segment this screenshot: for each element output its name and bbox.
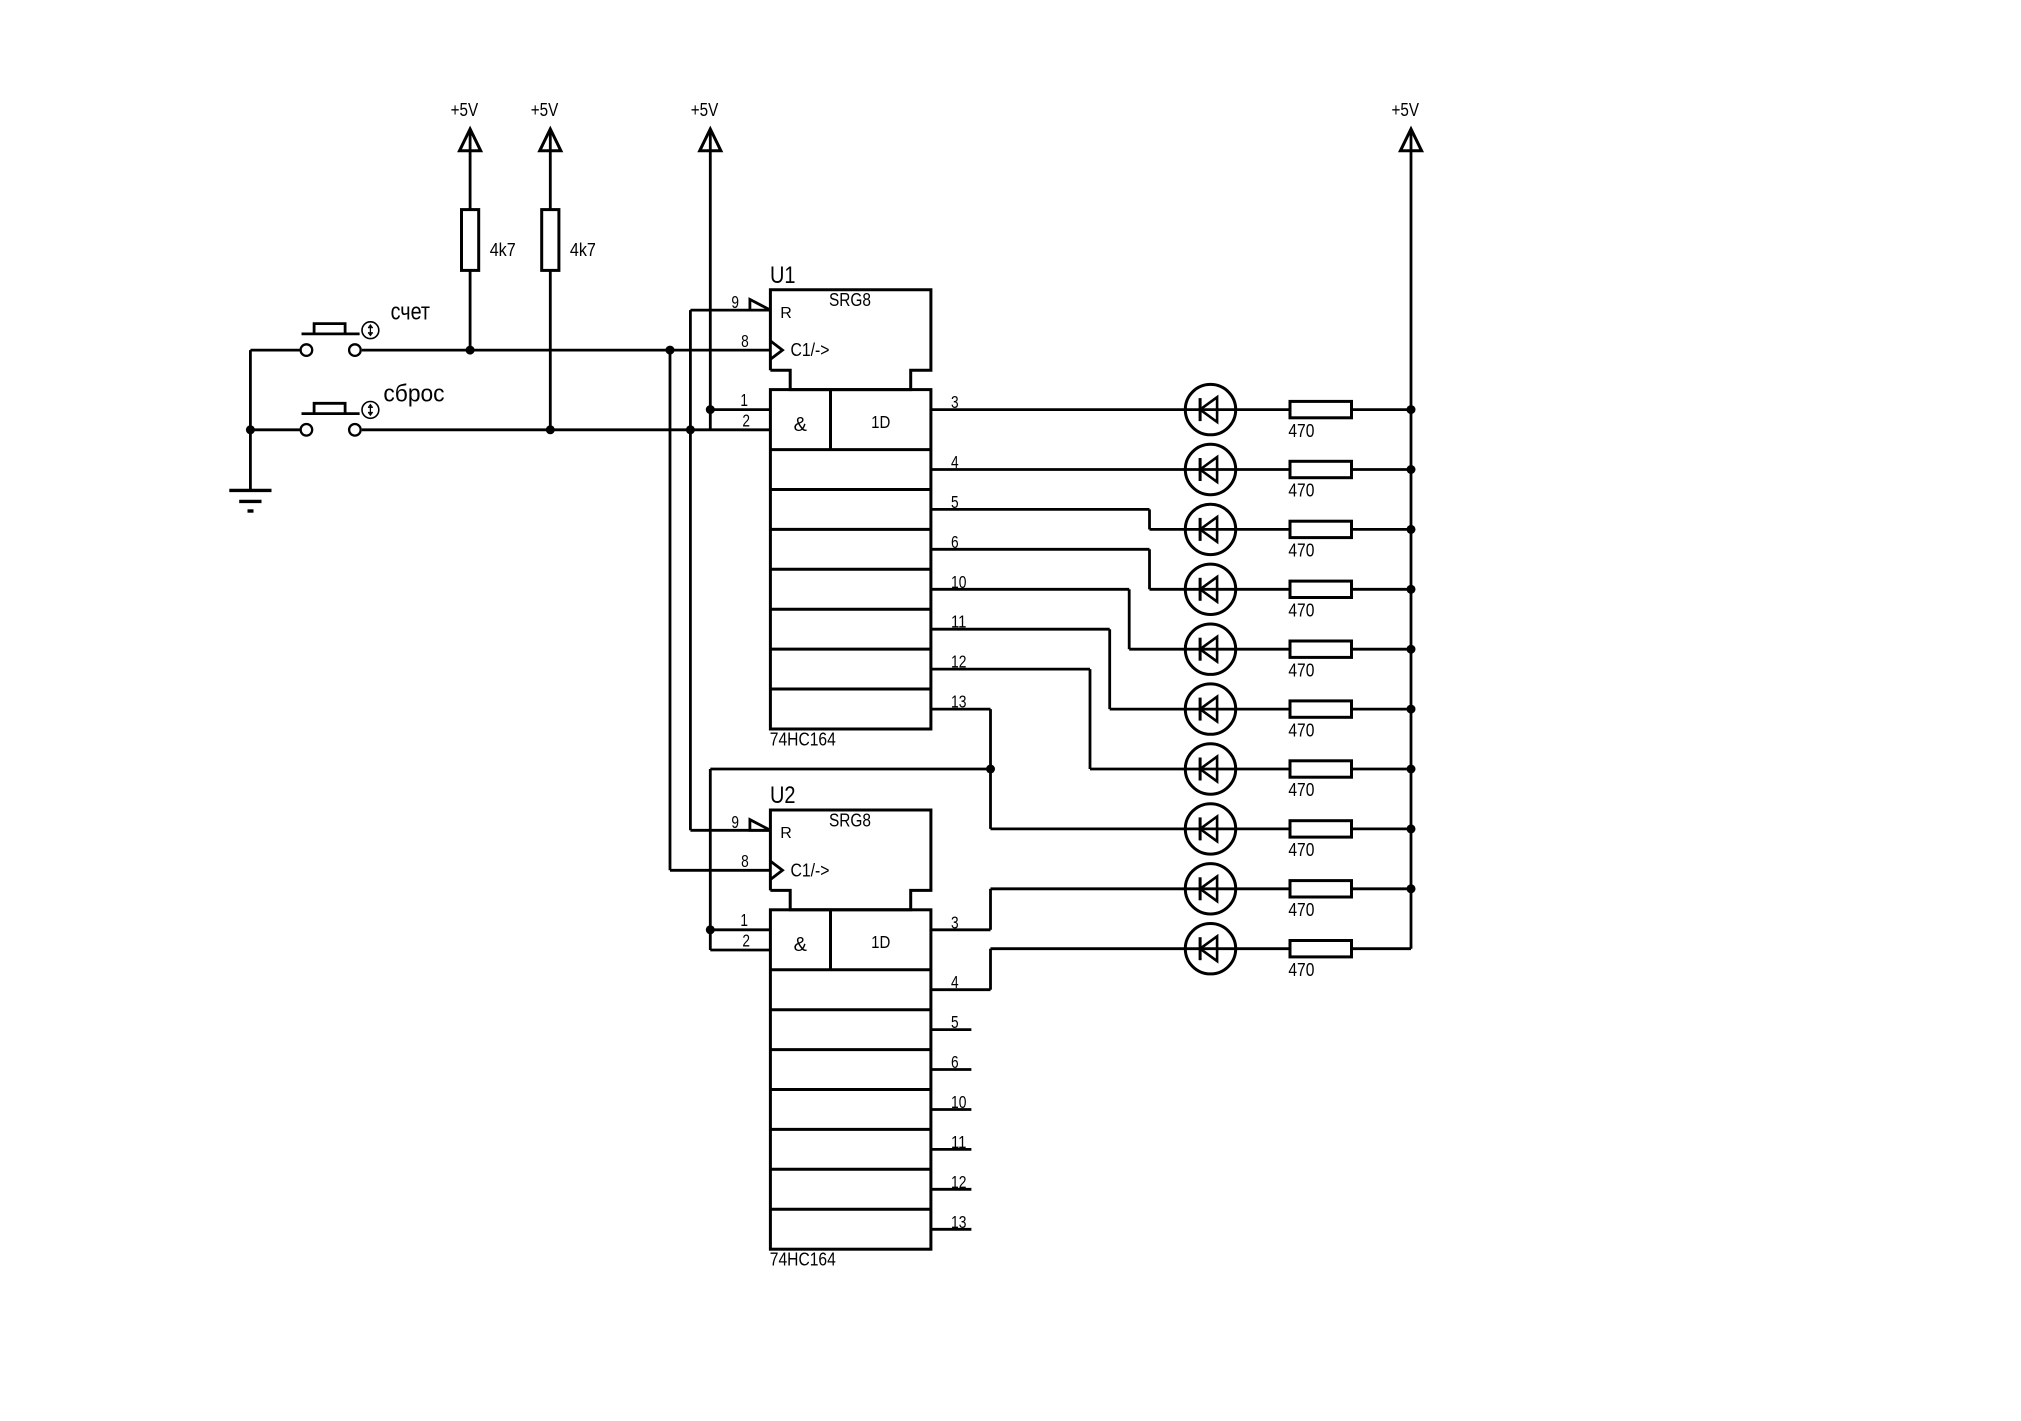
svg-text:9: 9 (731, 812, 739, 832)
svg-text:4k7: 4k7 (570, 240, 596, 260)
svg-text:SRG8: SRG8 (829, 810, 871, 830)
svg-text:8: 8 (741, 331, 749, 351)
wire LED row 5 horizontal to +5V rail (1129, 648, 1411, 651)
wire left rail from schet line down to ground (249, 350, 252, 490)
junction clock branch on schet line (666, 346, 675, 355)
U1 right pin numbers (951, 392, 967, 711)
svg-text:C1/->: C1/-> (791, 860, 830, 880)
wire LED row 4 horizontal to +5V rail (1150, 588, 1412, 591)
resistor R9 470 (horizontal) (1288, 761, 1351, 800)
wire LED row 3 horizontal to +5V rail (1150, 528, 1412, 531)
svg-text:C1/->: C1/-> (791, 340, 830, 360)
LED D8 (circle with diode) (1185, 804, 1235, 854)
svg-text:470: 470 (1288, 780, 1314, 800)
wire U1 pin 10 feeder (931, 588, 1129, 591)
svg-text:9: 9 (731, 292, 739, 312)
U2 right pin numbers (951, 912, 967, 1232)
junction reset branch on sbros line (686, 425, 695, 434)
svg-text:470: 470 (1288, 900, 1314, 920)
wire +5V arrow 2 down to resistor R2 (549, 129, 552, 210)
svg-text:U1: U1 (770, 262, 796, 289)
svg-text:+5V: +5V (1392, 100, 1420, 120)
svg-text:1D: 1D (871, 932, 890, 952)
junction R2 / sbros line (546, 425, 555, 434)
U1 left pin numbers 9 8 1 2 (731, 292, 750, 430)
LED D7 (circle with diode) (1185, 744, 1235, 794)
wire LED row 10 horizontal to +5V rail (991, 947, 1412, 950)
IC U2 74HC164 shift register (SRG8 symbol) (731, 782, 966, 1270)
svg-text:сброс: сброс (383, 380, 444, 407)
resistor R1 4k7 (vertical) (462, 210, 516, 271)
svg-text:R: R (780, 305, 792, 322)
wire +5V arrow 3 down to U1 serial input net (709, 129, 712, 430)
wire sbros line: button to U1 pin 2 (362, 428, 771, 431)
U2 register block outline (770, 910, 931, 1249)
wire resistor R1 down to schet line (469, 270, 472, 350)
resistor R3 470 (horizontal) (1288, 401, 1351, 440)
LED D2 (circle with diode) (1185, 444, 1235, 494)
svg-text:470: 470 (1288, 840, 1314, 860)
svg-text:2: 2 (742, 410, 750, 430)
LED D9 (circle with diode) (1185, 864, 1235, 914)
LED D1 (circle with diode) (1185, 384, 1235, 434)
wire U1 pin 9 stub (690, 309, 770, 312)
wire LED row 8 horizontal to +5V rail (991, 828, 1412, 831)
LED D6 (circle with diode) (1185, 684, 1235, 734)
wire clock vertical down to U2 pin 8 (669, 350, 672, 870)
svg-text:74HC164: 74HC164 (770, 1249, 836, 1270)
+5V power symbol at U1 data inputs (691, 100, 721, 151)
svg-text:2: 2 (742, 931, 750, 951)
svg-text:470: 470 (1288, 541, 1314, 561)
LED D5 (circle with diode) (1185, 624, 1235, 674)
svg-text:R: R (780, 825, 792, 842)
resistor R12 470 (horizontal) (1288, 941, 1351, 980)
pushbutton sbros (reset) (301, 402, 379, 436)
svg-text:&: & (794, 414, 808, 436)
svg-text:+5V: +5V (531, 100, 559, 120)
wire U1 pin 6 feeder (931, 548, 1150, 551)
LED D10 (circle with diode) (1185, 924, 1235, 974)
LED D4 (circle with diode) (1185, 564, 1235, 614)
wire cascade horizontal to U2 data input column (710, 768, 990, 771)
pushbutton schet (count) (301, 322, 379, 356)
resistor R11 470 (horizontal) (1288, 881, 1351, 920)
junction +5V column / U1 pin 1 (706, 405, 715, 414)
svg-text:74HC164: 74HC164 (770, 729, 836, 750)
U2 R pin polarity wedge (pin 9) (750, 820, 771, 831)
U1 register cell divider lines (770, 390, 931, 689)
svg-text:1: 1 (740, 390, 748, 410)
svg-text:470: 470 (1288, 601, 1314, 621)
wire U2 pin 9 stub (690, 829, 770, 832)
wire left rail to schet button left contact (250, 349, 299, 352)
wire reset vertical: U1 pin 9 down to U2 pin 9 (689, 310, 692, 830)
junction U1 pin 13 cascade node (986, 765, 995, 774)
wire LED row 6 horizontal to +5V rail (1110, 708, 1411, 711)
junction cascade / U2 pin 1 (706, 925, 715, 934)
wire U2 pin 8 stub (670, 869, 770, 872)
svg-text:470: 470 (1288, 421, 1314, 441)
resistor R4 470 (horizontal) (1288, 461, 1351, 500)
wire schet line: button to U1 pin 8 (clock) (362, 349, 771, 352)
wire +5V rail vertical (right) (1410, 129, 1413, 949)
+5V power symbol at R2 pull-up (531, 100, 561, 151)
wire resistor R2 down across schet line to sbros line (549, 270, 552, 429)
IC U1 74HC164 shift register (SRG8 symbol) (731, 262, 966, 750)
+5V power symbol at R1 pull-up (451, 100, 481, 151)
resistor R10 470 (horizontal) (1288, 821, 1351, 860)
wire U2 pin 3 riser to LED row 9 (931, 928, 991, 931)
LED D3 (circle with diode) (1185, 504, 1235, 554)
U2 clock dynamic-input triangle (pin 8) (770, 861, 782, 879)
resistor R7 470 (horizontal) (1288, 641, 1351, 680)
U1 clock dynamic-input triangle (pin 8) (770, 341, 782, 359)
wire LED row 1 horizontal to +5V rail (931, 408, 1411, 411)
junction R1 / schet line (466, 346, 475, 355)
wire LED row 2 horizontal to +5V rail (931, 468, 1411, 471)
wire U1 pin 13 feeder down to LED row 8 (931, 708, 991, 711)
U1 R pin polarity wedge (pin 9) (750, 299, 771, 310)
U1 control block outline (770, 290, 931, 390)
U2 control block outline (770, 810, 931, 910)
resistor R2 4k7 (vertical) (542, 210, 596, 271)
ground symbol (229, 490, 271, 511)
junction dots on +5V rail (1407, 405, 1416, 893)
wire U1 pin 11 feeder (931, 628, 1110, 631)
wire U2 pin 1 stub (710, 928, 770, 931)
unconnected U2 output stubs pins 5 6 10 11 12 13 (931, 1030, 972, 1230)
wire left rail to sbros button left contact (250, 428, 299, 431)
svg-text:8: 8 (741, 851, 749, 871)
svg-text:1D: 1D (871, 412, 890, 432)
svg-text:470: 470 (1288, 481, 1314, 501)
wire U2 pin 2 stub (710, 949, 770, 952)
svg-text:SRG8: SRG8 (829, 290, 871, 310)
wire +5V arrow 1 down to resistor R1 (469, 129, 472, 210)
svg-text:+5V: +5V (451, 100, 479, 120)
resistor R5 470 (horizontal) (1288, 521, 1351, 560)
svg-text:+5V: +5V (691, 100, 719, 120)
junction left rail / sbros line (246, 425, 255, 434)
resistor R8 470 (horizontal) (1288, 701, 1351, 740)
wire LED row 9 horizontal to +5V rail (991, 887, 1412, 890)
svg-text:470: 470 (1288, 660, 1314, 680)
wire U1 pin 1 stub (710, 408, 770, 411)
svg-text:470: 470 (1288, 960, 1314, 980)
svg-text:470: 470 (1288, 720, 1314, 740)
U2 register cell divider lines (770, 910, 931, 1209)
svg-text:&: & (794, 934, 808, 956)
svg-text:4k7: 4k7 (490, 240, 516, 260)
resistor R6 470 (horizontal) (1288, 581, 1351, 620)
svg-text:U2: U2 (770, 782, 796, 809)
U1 register block outline (770, 390, 931, 729)
wire U1 pin 12 feeder (931, 668, 1090, 671)
wire U1 pin 5 feeder (931, 508, 1150, 511)
wire cascade vertical down to U2 pins 1,2 (709, 769, 712, 950)
svg-text:1: 1 (740, 910, 748, 930)
U2 left pin numbers 9 8 1 2 (731, 812, 750, 950)
wire U2 pin 4 riser to LED row 10 (931, 988, 991, 991)
svg-text:счет: счет (391, 299, 430, 326)
+5V power symbol at LED rail (1392, 100, 1422, 151)
wire LED row 7 horizontal to +5V rail (1090, 768, 1411, 771)
